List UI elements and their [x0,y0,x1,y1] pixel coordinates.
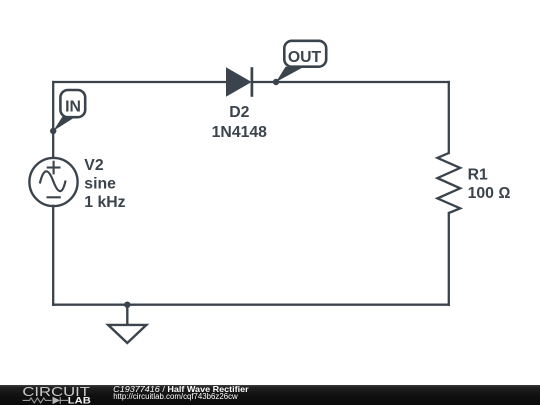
label D2 value [212,104,268,141]
svg-text:100 Ω: 100 Ω [468,185,511,202]
diode D2 [227,67,252,97]
resistor R1 [437,153,460,213]
label R1 value [468,166,511,202]
svg-text:D2: D2 [229,104,249,121]
wire right vertical upper (corner to R1 top) [448,82,450,153]
wire right vertical lower (R1 bottom to corner) [448,213,450,305]
svg-text:sine: sine [84,175,116,192]
footer logo diode glyph [53,397,61,405]
svg-text:R1: R1 [468,166,488,183]
wire left vertical lower (V2 bottom to corner) [52,206,54,305]
node dot OUT [273,79,279,85]
voltage source V2 [29,158,77,206]
wire top-left vertical (IN node to V2 top) [52,82,54,157]
svg-text:1 kHz: 1 kHz [84,194,125,211]
svg-text:http://circuitlab.com/cqf743b6: http://circuitlab.com/cqf743b6z26cw [113,392,238,401]
svg-text:V2: V2 [84,157,104,174]
svg-text:IN: IN [65,99,81,116]
node dot IN [50,128,56,134]
footer logo schematic line [23,397,68,404]
svg-text:LAB: LAB [68,396,91,405]
label V2 value [84,157,125,211]
node label OUT flag [276,41,326,82]
wire bottom horizontal [53,304,449,306]
wire top horizontal left (corner to diode anode) [53,81,226,83]
wire top horizontal right (diode cathode to top-right corner) [252,81,449,83]
svg-text:1N4148: 1N4148 [212,124,268,141]
node label IN flag [53,90,85,131]
svg-text:OUT: OUT [288,49,322,66]
ground symbol [108,307,146,343]
node dot ground junction [124,302,130,308]
